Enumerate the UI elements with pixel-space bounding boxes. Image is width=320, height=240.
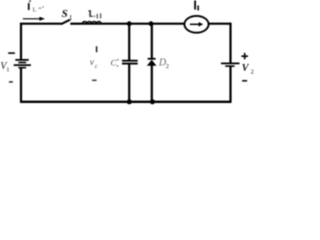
wire V2 bottom to bottom rail: [229, 66, 231, 102]
svg-text:L: L: [33, 7, 37, 14]
label Lr1 subscript tick 1: [100, 13, 101, 18]
battery V1 bottom plate short: [18, 67, 26, 69]
svg-text:c: c: [95, 63, 98, 70]
minus above V1: [8, 52, 15, 54]
minus below V1: [9, 81, 13, 83]
plus tick above vc: [96, 46, 97, 52]
wire left vertical rail: [20, 23, 22, 60]
inductor Lr1 wire-through: [82, 23, 101, 25]
wire current source to right corner: [209, 23, 232, 25]
label iLr dot of i: [29, 0, 31, 2]
label Lr1 L serif top: [88, 10, 91, 11]
wire V1 bottom to bottom rail: [20, 68, 22, 102]
label Lr1 subscript dot: [94, 16, 95, 17]
junction node bottom diode: [150, 99, 155, 104]
capacitor Cr bottom plate: [122, 63, 138, 65]
wire diode branch lower: [151, 65, 153, 102]
battery V1 plate long: [14, 64, 31, 66]
label I1 subscript bar: [197, 6, 199, 11]
svg-text:2: 2: [251, 69, 254, 76]
plus of V2 vertical: [244, 53, 246, 59]
svg-text:2: 2: [166, 63, 169, 70]
current source I1 arrow head: [199, 22, 204, 27]
junction node top diode: [149, 21, 154, 26]
wire diode branch upper: [151, 23, 153, 59]
battery V2 bottom plate short: [225, 65, 234, 67]
battery V1 top plate long: [15, 59, 28, 61]
junction node top capacitor: [127, 21, 132, 26]
wire right vertical rail upper: [229, 23, 231, 63]
label iLr stem of i: [28, 3, 30, 10]
svg-text:C: C: [111, 57, 117, 67]
diode D2 cathode bar: [148, 58, 156, 60]
current iLr arrow head: [39, 17, 45, 21]
wire capacitor branch lower: [128, 64, 130, 102]
capacitor Cr top plate: [122, 60, 138, 62]
switch S1 blade: [61, 20, 70, 25]
battery V2 top plate long: [221, 62, 240, 64]
wire bottom rail: [20, 101, 232, 103]
svg-text:1: 1: [69, 14, 73, 22]
svg-text:1: 1: [6, 67, 9, 74]
label Lr1 subscript tick r: [97, 14, 98, 19]
plus of V2 horizontal: [241, 55, 248, 57]
battery V1 plate short: [18, 62, 26, 64]
label Lr1 L stem: [89, 11, 91, 17]
label I1 main bar: [194, 1, 196, 10]
minus below V2: [242, 80, 247, 82]
svg-text:v: v: [90, 57, 94, 67]
current source I1 arrow shaft: [190, 23, 199, 25]
current iLr arrow shaft: [23, 18, 40, 20]
inductor Lr1 coil bumps: [82, 22, 101, 24]
svg-text:S: S: [62, 8, 68, 20]
current source I1 ellipse: [184, 16, 208, 33]
label iLr subscript r marks: [39, 8, 42, 9]
wire capacitor branch upper: [128, 23, 130, 60]
wire switch to inductor: [70, 23, 82, 25]
label Lr1 L foot: [90, 16, 93, 17]
minus below vc: [92, 80, 97, 81]
wire inductor to current source: [101, 23, 184, 25]
diode D2 triangle: [147, 60, 157, 66]
wire top-left horizontal (corner to switch): [20, 23, 61, 25]
junction node bottom capacitor: [127, 99, 132, 104]
